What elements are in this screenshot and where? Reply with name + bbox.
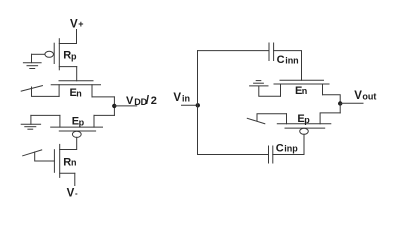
svg-text:n: n [76,88,82,98]
capacitor Cinn [269,43,274,61]
wire Ep left terminal [31,114,60,116]
svg-text:p: p [304,115,310,125]
label Rn [63,157,76,169]
node VDD/2 label [126,93,157,107]
transistor Ep (right) [277,114,331,135]
transistor En (right) [274,80,329,96]
transistor En (left) [51,81,100,97]
wire top branch to Cinn [198,50,270,52]
node Vout label [354,90,376,102]
svg-text:n: n [71,158,77,168]
svg-text:V: V [70,19,78,31]
wire Rn gate [35,152,55,161]
label En (left) [70,87,82,99]
svg-text:/: / [146,93,150,107]
wire En right terminal to VDD/2 node [92,96,114,98]
svg-text:2: 2 [151,95,157,107]
label Rp [63,49,77,61]
label Ep (left) [72,115,85,127]
wire Vin stub [182,104,198,106]
transistor Rp [45,39,77,70]
input mark (En) [21,86,42,92]
ground (En source, inverted) [250,81,268,86]
node Vin label [173,92,190,104]
wire En left terminal [259,86,281,96]
transistor Rn [54,144,74,177]
svg-text:V: V [126,95,134,107]
label Cinn [277,54,299,66]
svg-text:-: - [75,189,78,198]
wire Cinn to En gate [274,51,302,81]
wire Rp source to En gate [76,67,78,81]
svg-text:V: V [67,188,75,198]
label Cinp [276,142,299,154]
input mark (Rn) [23,150,42,156]
input mark (Ep right) [247,118,264,123]
wire Ep right terminal to VDD/2 node [94,114,114,116]
wire Ep right terminal [320,113,340,124]
wire En right terminal to output [323,95,341,104]
wire V+ to Rp drain [59,30,76,44]
node V+ label [70,19,84,31]
node Vout junction dot [338,101,342,105]
ground (Ep source) [21,115,40,129]
svg-text:p: p [79,117,85,127]
svg-text:inn: inn [285,55,299,65]
wire En left terminal [32,87,60,96]
wire bottom branch to Cinp [198,154,269,156]
capacitor Cinp [269,146,273,163]
transistor Ep (left) [51,115,103,137]
svg-text:C: C [277,54,285,66]
svg-text:n: n [302,86,308,96]
label Ep (right) [297,113,310,125]
svg-text:C: C [276,142,284,154]
wire Rp gate [32,53,45,55]
svg-text:inp: inp [284,144,298,154]
wire Ep bubble to Cinp [273,134,304,154]
svg-text:out: out [362,91,376,101]
node Vin junction dot [196,103,200,107]
node VDD/2 junction dot [112,104,116,108]
wire input vertical [197,51,199,155]
wire VDD/2 stub [114,105,136,107]
svg-text:p: p [71,51,77,61]
wire VDD/2 vertical [113,97,115,116]
ground (Rp gate) [23,54,41,68]
wire output vertical [339,104,341,113]
label En (right) [295,85,307,97]
wire Rn source to V- [74,173,76,185]
wire Vout stub [340,102,363,104]
wire Ep bubble to Rn drain [60,137,77,149]
svg-text:+: + [78,19,83,29]
wire Ep left terminal [257,114,287,121]
node V- label [67,188,78,200]
svg-text:in: in [182,93,190,103]
svg-text:V: V [354,90,362,102]
svg-text:V: V [173,92,181,104]
